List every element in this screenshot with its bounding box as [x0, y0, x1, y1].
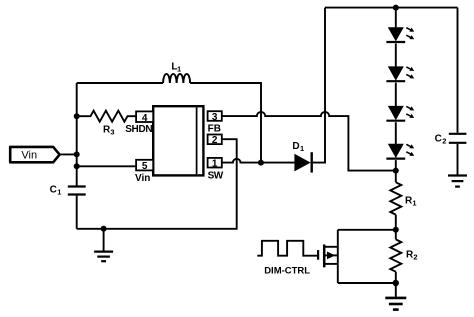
inductor L1 [163, 74, 190, 83]
transistor Q1 channel bar [323, 245, 326, 268]
svg-text:1: 1 [412, 199, 416, 208]
svg-text:1: 1 [212, 159, 218, 170]
wire source to ground node [338, 282, 396, 284]
wire LED3 to LED4 [395, 122, 397, 144]
svg-text:1: 1 [300, 144, 304, 153]
wire SW net with hop [222, 159, 295, 163]
svg-text:1: 1 [177, 64, 181, 73]
wire LED2 to LED3 [395, 83, 397, 106]
wire input rail vertical [76, 83, 78, 186]
ground left [94, 229, 113, 261]
svg-text:D: D [292, 141, 299, 152]
wire R1 to R2 node [395, 215, 397, 230]
LED D3 [386, 66, 414, 81]
pin 1 box [208, 158, 222, 168]
pin 4 box [136, 111, 153, 122]
wire bottom ground rail [77, 139, 237, 229]
wire Vin tag to input rail [60, 153, 77, 155]
svg-text:C: C [50, 184, 57, 195]
node Vin rail / R3 junction [74, 113, 80, 119]
svg-text:3: 3 [212, 112, 218, 123]
node SW / L1 / D1 junction [258, 160, 264, 166]
svg-text:2: 2 [413, 253, 417, 262]
wire D1 cathode to output rail [313, 8, 325, 163]
node bottom rail / ground junction [101, 226, 107, 232]
resistor R1 [390, 182, 401, 214]
capacitor C2 [457, 8, 459, 133]
wire C1 bottom to bottom rail [76, 196, 78, 229]
svg-text:1: 1 [57, 187, 61, 196]
svg-text:Vin: Vin [135, 173, 150, 184]
pin 3 box [208, 111, 222, 121]
svg-text:5: 5 [142, 161, 148, 172]
svg-text:DIM-CTRL: DIM-CTRL [264, 266, 310, 277]
ground under C2 [448, 144, 467, 187]
svg-text:SW: SW [208, 170, 224, 181]
IC U1 body [153, 106, 203, 175]
svg-text:3: 3 [110, 128, 114, 137]
svg-text:SHDN: SHDN [125, 124, 152, 135]
wire FB net with hops [222, 112, 396, 171]
wire drain to R1/R2 node [338, 229, 396, 231]
capacitor C1 [68, 185, 86, 187]
wire top rail L1 to SW vertical [190, 83, 261, 163]
resistor R3 [77, 111, 136, 122]
svg-text:C: C [435, 133, 442, 144]
transistor Q1 body arrow stub [324, 254, 338, 256]
resistor R2 [390, 239, 401, 271]
wire top rail left to L1 [77, 82, 163, 84]
svg-text:2: 2 [212, 135, 218, 146]
LED D2 [386, 27, 414, 42]
DIM-CTRL square wave [257, 241, 317, 256]
svg-text:2: 2 [442, 136, 446, 145]
wire node to R1 [395, 171, 397, 183]
ground bottom right [385, 283, 406, 310]
wire node to R2 [395, 230, 397, 240]
pin 2 box [208, 135, 222, 145]
transistor Q1 source stub [324, 263, 338, 265]
transistor Q1 drain stub [324, 246, 338, 248]
wire top output rail [325, 7, 458, 9]
wire rail to pin 5 [77, 165, 136, 167]
node Vin rail / tag junction [74, 151, 80, 157]
wire R2 to bottom node [395, 272, 397, 283]
wire LED4 to FB node [395, 160, 397, 171]
Vin input tag [10, 147, 59, 162]
transistor Q1 drain-source bus [337, 230, 339, 283]
wire LED1 to LED2 [395, 44, 397, 67]
diode D1 [294, 154, 310, 172]
pin 5 box [136, 160, 153, 171]
svg-text:4: 4 [142, 113, 148, 124]
LED D5 [386, 144, 414, 159]
wire top rail to LED1 [395, 8, 397, 28]
node top rail / LED string junction [393, 5, 399, 11]
LED D4 [386, 106, 414, 121]
node Vin rail / pin5 junction [74, 163, 80, 169]
node LED string / FB / R1 junction [393, 168, 399, 174]
node R1 / R2 / drain junction [393, 227, 399, 233]
node R2 / source / ground junction [393, 280, 399, 286]
transistor Q1 gate bar [317, 250, 319, 260]
svg-text:FB: FB [208, 124, 221, 135]
svg-text:Vin: Vin [21, 150, 37, 162]
